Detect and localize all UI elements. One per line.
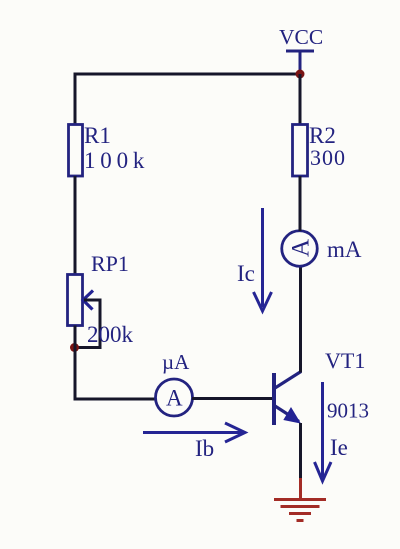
transistor emitter arrowhead (285, 409, 300, 423)
wire left upper (74, 74, 77, 126)
svg-text:200k: 200k (87, 322, 134, 347)
wire bottom left (74, 398, 157, 401)
transistor collector diagonal (275, 372, 301, 389)
node junction VCC (296, 70, 305, 79)
svg-text:RP1: RP1 (91, 251, 129, 276)
wire base (192, 397, 274, 400)
wire R2 to mA (299, 176, 302, 231)
svg-text:Ib: Ib (195, 436, 214, 461)
resistor R1 (69, 125, 83, 177)
resistor R2 (293, 125, 308, 177)
svg-text:mA: mA (327, 237, 362, 262)
wire left lower (74, 326, 77, 401)
svg-text:300: 300 (310, 145, 346, 170)
ammeter uA (156, 379, 193, 416)
svg-text:A: A (166, 386, 183, 411)
svg-text:A: A (288, 239, 315, 257)
Ib arrow (143, 431, 243, 434)
node junction wiper (70, 343, 79, 352)
wire R2 top (299, 74, 302, 126)
svg-text:µA: µA (162, 350, 190, 374)
Ic arrow (261, 208, 264, 307)
wire ground stub red (299, 478, 302, 499)
RP1 wiper arrow (83, 291, 93, 310)
wire top horizontal (74, 73, 301, 76)
svg-text:100k: 100k (84, 148, 149, 173)
svg-text:VCC: VCC (279, 25, 323, 49)
VCC power bar (286, 50, 314, 53)
wire VCC stub (299, 51, 302, 74)
wire left middle (74, 176, 77, 276)
Ie arrow (321, 382, 324, 477)
svg-text:VT1: VT1 (325, 348, 365, 373)
wire collector vertical (299, 266, 302, 373)
RP1 wiper wire (75, 300, 100, 348)
svg-text:Ie: Ie (330, 435, 348, 460)
svg-text:Ic: Ic (237, 261, 255, 286)
svg-text:R1: R1 (84, 123, 111, 148)
wire emitter vertical (299, 423, 302, 480)
transistor VT1 base bar (272, 373, 276, 425)
ground symbol (274, 498, 326, 501)
svg-text:9013: 9013 (327, 399, 369, 423)
transistor emitter diagonal (275, 406, 299, 422)
ammeter mA (282, 231, 318, 267)
potentiometer RP1 (68, 275, 83, 326)
